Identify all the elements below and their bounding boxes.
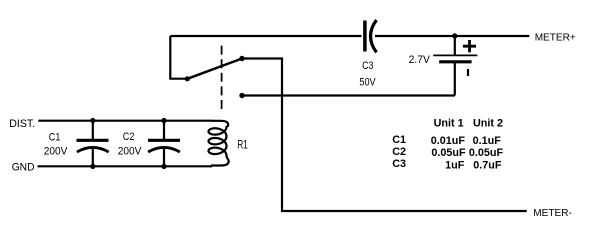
- svg-text:0.1uF: 0.1uF: [473, 135, 502, 147]
- wire switch contact2 to battery negative: [242, 94, 455, 96]
- svg-text:0.05uF: 0.05uF: [469, 147, 504, 159]
- svg-text:0.01uF: 0.01uF: [431, 135, 466, 147]
- value label C3: [362, 60, 373, 72]
- wire top bus right of C3: [375, 35, 529, 37]
- wire switch common riser: [170, 36, 186, 79]
- svg-text:1uF: 1uF: [445, 159, 465, 171]
- svg-text:C2: C2: [392, 146, 406, 158]
- wire battery negative lead: [454, 63, 456, 96]
- svg-text:C2: C2: [123, 131, 135, 143]
- svg-text:Unit 1: Unit 1: [434, 117, 464, 129]
- value label C2: [123, 131, 135, 143]
- value label 200V (C1): [44, 146, 68, 158]
- wire DIST bus: [38, 120, 212, 122]
- value label 2.7V: [409, 54, 431, 66]
- svg-text:200V: 200V: [44, 146, 68, 158]
- relay coil R1: [209, 121, 229, 166]
- svg-text:0.7uF: 0.7uF: [473, 159, 502, 171]
- svg-text:METER-: METER-: [533, 208, 572, 219]
- node DIST.: [9, 118, 35, 130]
- svg-text:200V: 200V: [118, 146, 142, 158]
- capacitor C1: [77, 118, 109, 169]
- wire contact1 to METER- run: [242, 59, 527, 212]
- svg-text:R1: R1: [237, 138, 248, 152]
- table of capacitor values: [392, 117, 503, 171]
- svg-text:0.05uF: 0.05uF: [431, 147, 466, 159]
- node METER-: [533, 208, 572, 219]
- node junction battery+: [452, 33, 457, 38]
- svg-text:50V: 50V: [359, 77, 376, 89]
- wire top bus left of C3: [170, 35, 361, 37]
- wire GND bus: [38, 165, 213, 167]
- switch S1: [185, 56, 245, 98]
- svg-text:C1: C1: [392, 134, 406, 146]
- wire battery positive lead: [454, 36, 456, 55]
- svg-text:Unit 2: Unit 2: [473, 117, 503, 129]
- node METER+: [535, 32, 576, 43]
- node GND: [12, 161, 35, 173]
- mechanical link (dashed): [221, 46, 223, 113]
- svg-text:C1: C1: [49, 131, 61, 143]
- svg-text:2.7V: 2.7V: [409, 54, 431, 66]
- capacitor C3: [365, 20, 377, 52]
- capacitor C2: [148, 118, 180, 169]
- value label 50V: [359, 77, 376, 89]
- svg-text:DIST.: DIST.: [9, 118, 35, 130]
- battery BT1 2.7V: [433, 40, 477, 76]
- svg-text:C3: C3: [392, 158, 406, 170]
- svg-text:GND: GND: [12, 161, 35, 173]
- value label C1: [49, 131, 61, 143]
- svg-text:C3: C3: [362, 60, 373, 72]
- value label 200V (C2): [118, 146, 142, 158]
- value label R1: [237, 138, 248, 152]
- svg-text:METER+: METER+: [535, 32, 576, 43]
